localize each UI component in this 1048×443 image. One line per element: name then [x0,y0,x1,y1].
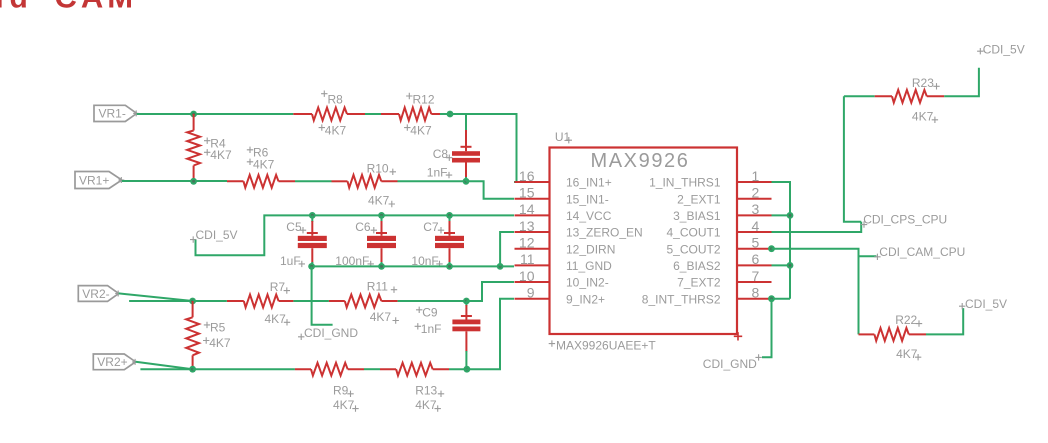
wire C9 node to pin10 [466,282,514,301]
svg-text:14: 14 [519,201,535,217]
IC U1 MAX9926 body [550,148,738,335]
svg-text:4_COUT1: 4_COUT1 [666,226,720,240]
svg-text:4K7: 4K7 [912,109,934,123]
svg-text:4K7: 4K7 [896,347,918,361]
wire VR1+ to R6 [122,180,227,182]
svg-text:11_GND: 11_GND [566,259,612,273]
svg-text:R7: R7 [270,280,286,294]
svg-text:7_EXT2: 7_EXT2 [677,276,721,290]
node C6 top [378,212,385,219]
svg-text:14_VCC: 14_VCC [566,209,612,223]
wire VR2- to R7 [193,300,227,302]
svg-text:CDI_5V: CDI_5V [983,42,1025,56]
svg-text:6_BIAS2: 6_BIAS2 [673,259,721,273]
svg-text:CAM: CAM [55,0,138,15]
wire pin8 to bus [772,298,791,300]
svg-text:C7: C7 [423,220,439,234]
svg-text:13: 13 [519,218,535,234]
wire R10 to C8 node [398,180,467,182]
svg-text:4K7: 4K7 [415,398,437,412]
resistor R4 [193,114,195,131]
svg-text:10: 10 [519,268,535,284]
wire R7 to R11 [293,300,329,302]
wire R11 to C9 node [398,300,467,302]
svg-text:4K7: 4K7 [325,123,347,137]
svg-text:1nF: 1nF [421,322,442,336]
svg-text:VR2-: VR2- [82,287,109,301]
node C7 bottom [446,263,453,270]
wire pin8 to CDI_GND [762,299,772,358]
pin 13 stub (left) [515,231,550,233]
svg-text:CDI_5V: CDI_5V [196,228,238,242]
pin 3 stub (right) [737,214,772,216]
resistor R12 [381,113,399,115]
wire R22 to CDI_5V [926,308,963,334]
svg-text:9_IN2+: 9_IN2+ [566,292,605,306]
pin 5 stub (right) [737,248,772,250]
resistor R13 [380,368,396,370]
node GND-pin13 junction [497,263,504,270]
svg-text:R23: R23 [912,76,934,90]
svg-text:12_DIRN: 12_DIRN [566,242,615,256]
svg-text:R8: R8 [328,93,344,107]
pin 7 stub (right) [737,281,772,283]
capacitor C9 [465,301,467,306]
pin 9 stub (left) [515,298,550,300]
svg-text:CDI_5V: CDI_5V [965,297,1007,311]
wire R13 to pin9 riser [449,299,514,370]
node VR2+ / R5 junction [189,366,196,373]
svg-text:1_IN_THRS1: 1_IN_THRS1 [649,176,721,190]
pin 16 stub (left) [515,181,550,183]
resistor R10 [332,180,348,182]
svg-text:R12: R12 [413,93,435,107]
wire pin5 to CDI_CAM_CPU [772,249,877,257]
svg-text:5_COUT2: 5_COUT2 [666,242,720,256]
node pin8 junction [768,295,775,302]
svg-text:1: 1 [752,168,760,184]
svg-text:4K7: 4K7 [210,148,232,162]
wire pin4 to CDI_CPS_CPU [772,222,862,232]
svg-text:12: 12 [519,235,535,251]
wire GND to CDI_GND stub [312,266,333,324]
svg-text:R9: R9 [333,383,349,397]
capacitor C5 [311,215,313,222]
wire pin13 to GND [500,232,514,266]
node C5 bottom [308,263,315,270]
pennant VR2- [78,286,118,302]
wire R23 left [844,95,875,97]
pennant VR1+ [75,172,122,189]
svg-text:U1: U1 [555,130,571,144]
node C7 top [446,212,453,219]
pin 8 stub (right) [737,298,772,300]
svg-text:C9: C9 [422,306,438,320]
svg-text:16_IN1+: 16_IN1+ [566,176,612,190]
svg-text:CDI_CAM_CPU: CDI_CAM_CPU [879,245,965,259]
wire VR2+ diagonal [136,362,193,370]
svg-text:C8: C8 [433,147,449,161]
wire C8 node to pin15 [466,181,514,198]
resistor R7 [227,300,244,302]
node C8 bottom junction [463,178,470,185]
wire pin3 to bus [772,214,791,216]
svg-text:CDI_GND: CDI_GND [304,326,358,340]
svg-text:5: 5 [752,235,760,251]
svg-text:10_IN2-: 10_IN2- [566,276,609,290]
resistor R22 [859,333,875,335]
svg-text:13_ZERO_EN: 13_ZERO_EN [566,226,643,240]
svg-text:4K7: 4K7 [265,312,287,326]
svg-text:and: and [0,0,34,15]
wire CAM node down to R22 [858,249,860,335]
node C9 bottom junction [464,366,471,373]
svg-text:CDI_CPS_CPU: CDI_CPS_CPU [863,212,947,226]
svg-text:R5: R5 [210,320,226,334]
svg-text:4K7: 4K7 [410,123,432,137]
svg-text:8: 8 [752,285,760,301]
node C6 bottom [378,263,385,270]
pin 2 stub (right) [737,198,772,200]
pin 6 stub (right) [737,264,772,266]
svg-text:1uF: 1uF [280,254,301,268]
resistor R23 [875,95,892,97]
svg-text:4K7: 4K7 [333,398,355,412]
wire CDI_5V to VCC line [196,215,515,255]
wire VR2+ to R9 [193,368,295,370]
wire GND line [312,265,514,267]
svg-text:R13: R13 [415,383,437,397]
svg-text:MAX9926UAEE+T: MAX9926UAEE+T [556,339,656,353]
wire VR2- diagonal [119,293,193,301]
resistor R5 [192,301,194,317]
svg-text:8_INT_THRS2: 8_INT_THRS2 [642,292,721,306]
pin 4 stub (right) [737,231,772,233]
node C9 top junction [463,298,470,305]
node VR1- / R4 junction [190,111,197,118]
svg-text:2: 2 [752,185,760,201]
node VR2- / R5 junction [189,298,196,305]
svg-text:R22: R22 [895,313,917,327]
capacitor C7 [449,215,451,222]
svg-text:11: 11 [520,251,535,267]
svg-text:VR2+: VR2+ [97,355,127,369]
node pin5 junction [768,245,775,252]
wire VR1- to R8 [137,113,294,115]
resistor R9 [295,368,311,370]
node pin3 bus junction [787,212,794,219]
pin 10 stub (left) [515,281,550,283]
svg-text:16: 16 [519,168,535,184]
wire R23 drop [844,96,861,222]
capacitor C8 [465,114,467,131]
svg-text:C5: C5 [286,220,302,234]
wire R12 to pin16 corner [440,114,517,182]
pin 14 stub (left) [515,214,550,216]
svg-text:VR1+: VR1+ [79,173,109,187]
svg-text:MAX9926: MAX9926 [590,150,689,172]
svg-text:4K7: 4K7 [368,194,390,208]
wire pins 1-3-6-8 bus [772,182,791,299]
svg-text:3: 3 [752,201,760,217]
node C5 top [309,212,316,219]
wire R23 to CDI_5V [944,68,979,97]
svg-text:R10: R10 [367,161,389,175]
capacitor C6 [381,215,383,222]
svg-text:CDI_GND: CDI_GND [703,357,757,371]
resistor R11 [329,300,345,302]
svg-text:2_EXT1: 2_EXT1 [677,192,721,206]
pin 12 stub (left) [515,248,550,250]
svg-text:15: 15 [519,185,535,201]
svg-text:4K7: 4K7 [253,157,275,171]
svg-text:4K7: 4K7 [209,336,231,350]
node pin6 bus junction [787,262,794,269]
node R12 output junction [447,111,454,118]
svg-text:VR1-: VR1- [99,107,126,121]
wire R9 to R13 [364,368,380,370]
resistor R8 [293,113,312,115]
pin 11 stub (left) [515,264,550,266]
pennant VR1- [94,105,137,121]
resistor R6 [227,180,244,182]
wire R8 to R12 [365,113,381,115]
svg-text:7: 7 [752,268,760,284]
svg-text:9: 9 [527,285,535,301]
pennant VR2+ [93,354,135,370]
svg-text:C6: C6 [355,220,371,234]
wire pin6 to bus [772,264,791,266]
svg-text:6: 6 [752,251,760,267]
svg-text:4: 4 [752,218,760,234]
svg-text:R11: R11 [367,279,388,293]
svg-text:1nF: 1nF [427,166,448,180]
wire R6 to R10 [295,180,332,182]
node VR1+ / R4 junction [190,178,197,185]
svg-text:3_BIAS1: 3_BIAS1 [673,209,721,223]
svg-text:15_IN1-: 15_IN1- [566,192,609,206]
pin 1 stub (right) [737,181,772,183]
pin 15 stub (left) [515,198,550,200]
svg-text:4K7: 4K7 [370,310,392,324]
